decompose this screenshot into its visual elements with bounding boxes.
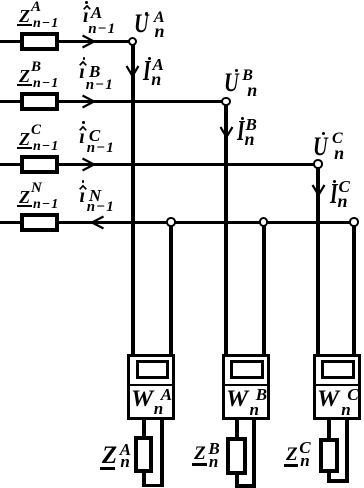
label I_n^B: [237, 118, 245, 146]
wire W_A bypass right: [160, 419, 164, 487]
resistor Z_n^A: [134, 436, 153, 473]
node U_n^B: [221, 97, 231, 107]
wire W_C bottom-left: [327, 419, 331, 438]
label Z_(n-1)^B: [19, 67, 30, 85]
wire neutral tap B vertical: [262, 225, 266, 356]
node U_n^A: [128, 37, 138, 47]
wire W_C bypass right: [345, 419, 349, 483]
label Z_n^A: [102, 443, 117, 468]
arrow current i_(n-1)^B right: [80, 93, 98, 111]
node neutral tap A: [166, 217, 176, 227]
node neutral tap B: [259, 217, 269, 227]
resistor Z_n^B: [226, 437, 247, 476]
wire W_B bottom-left: [235, 419, 239, 437]
wire phase C horizontal: [0, 163, 315, 166]
wire neutral horizontal: [0, 221, 351, 224]
node neutral tap C: [349, 217, 359, 227]
wattmeter W_n^C window: [321, 360, 355, 380]
wire phase B horizontal: [0, 100, 223, 103]
label Z_(n-1)^A: [19, 7, 30, 25]
wire neutral tap C vertical: [352, 225, 356, 356]
arrow current I_n^B down: [218, 125, 236, 139]
label Z_n^B: [194, 444, 206, 463]
label i_(n-1)^A: [83, 6, 89, 26]
label W_n^B: [226, 387, 248, 410]
arrow current i_(n-1)^N left: [88, 214, 106, 232]
label i_(n-1)^N: [80, 186, 86, 206]
wire W_A bottom U: [142, 484, 165, 488]
wattmeter W_n^A window: [136, 360, 170, 380]
label i_(n-1)^B: [79, 62, 85, 82]
wire phase C vertical: [316, 167, 320, 356]
wire phase A horizontal: [0, 40, 129, 43]
label Z_(n-1)^N: [19, 188, 30, 206]
label I_n^A: [143, 58, 151, 86]
wattmeter W_n^B box: [222, 354, 270, 420]
wire phase B vertical: [224, 105, 228, 356]
wire W_B bypass right: [252, 419, 256, 488]
wire Z_n^C bottom stub: [327, 472, 331, 483]
resistor Z_(n-1)^A: [20, 32, 59, 51]
wire Z_n^B bottom stub: [235, 474, 239, 488]
wattmeter W_n^B divider: [223, 384, 269, 387]
wire phase A vertical: [131, 44, 135, 356]
arrow current i_(n-1)^A right: [80, 33, 98, 51]
wattmeter W_n^C divider: [314, 384, 360, 387]
wire neutral tap A vertical: [169, 225, 173, 356]
resistor Z_(n-1)^N: [20, 213, 59, 232]
wire Z_n^A bottom stub: [142, 471, 146, 487]
label W_n^A: [131, 387, 153, 410]
wattmeter W_n^A divider: [128, 384, 174, 387]
label Z_n^C: [286, 445, 298, 464]
wattmeter W_n^B window: [230, 360, 264, 380]
resistor Z_(n-1)^B: [20, 92, 59, 111]
node U_n^C: [313, 159, 323, 169]
wattmeter W_n^C box: [313, 354, 361, 420]
label Z_(n-1)^C: [19, 130, 30, 148]
label U_n^A: [134, 11, 149, 37]
arrow current i_(n-1)^C right: [80, 156, 98, 174]
label W_n^C: [317, 387, 339, 410]
wire W_C bottom U: [327, 479, 349, 483]
wattmeter W_n^A box: [127, 354, 175, 420]
arrow current I_n^A down: [124, 64, 142, 78]
wire W_B bottom U: [235, 484, 257, 488]
label U_n^B: [224, 70, 239, 96]
label U_n^C: [313, 134, 328, 160]
wire W_A bottom-left: [142, 419, 146, 437]
arrow current I_n^C down: [310, 183, 328, 197]
resistor Z_(n-1)^C: [20, 155, 59, 174]
resistor Z_n^C: [319, 438, 339, 473]
label I_n^C: [330, 181, 338, 209]
label i_(n-1)^C: [79, 127, 85, 147]
